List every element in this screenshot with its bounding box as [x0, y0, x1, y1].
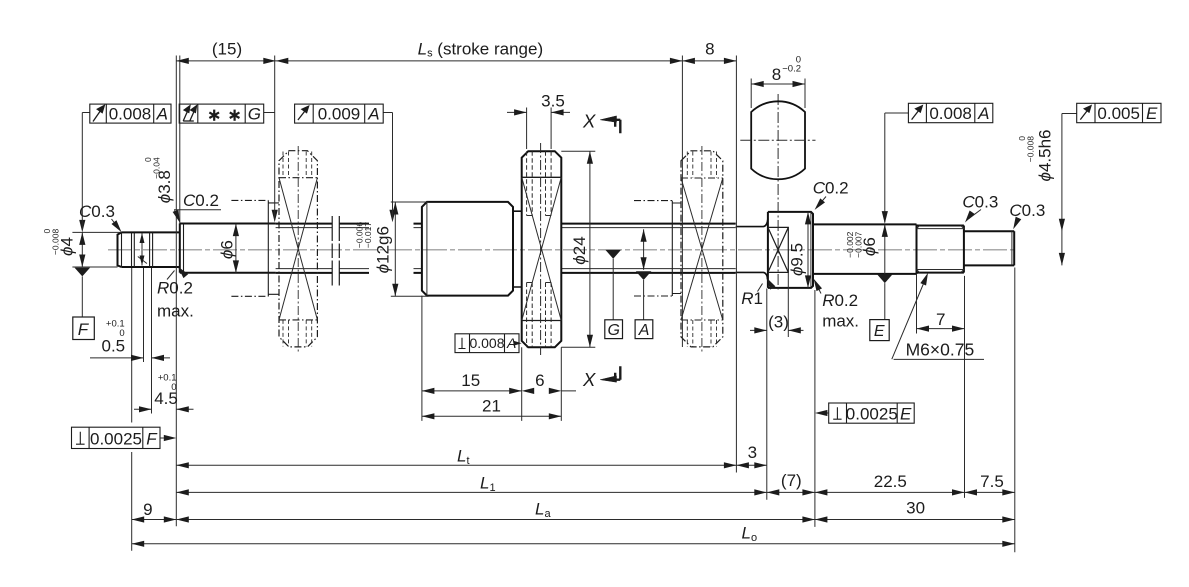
thread end ext (top 8 / Lt / 3)	[735, 56, 737, 473]
svg-text:Ls (stroke range): Ls (stroke range)	[418, 40, 544, 60]
(3)	[754, 327, 767, 333]
phi6 journal	[180, 224, 276, 273]
frame2 double arrow	[183, 120, 194, 122]
svg-text:ϕ4.5h6: ϕ4.5h6	[1035, 129, 1054, 181]
phi4.5	[1059, 219, 1065, 232]
phi4 with tolerance (rotated)	[58, 237, 77, 256]
svg-text:ϕ24: ϕ24	[570, 236, 589, 264]
bottom row4	[132, 543, 1015, 545]
phi6 left	[233, 224, 239, 237]
phi3.8	[140, 233, 145, 243]
frame7 perp 0.0025 F	[72, 427, 161, 448]
svg-text:R1: R1	[741, 289, 763, 308]
datum A triangle + line + box	[636, 271, 652, 280]
svg-text:9: 9	[143, 500, 152, 519]
M6 end ext	[964, 276, 966, 498]
svg-text:F: F	[146, 429, 158, 448]
svg-text:E: E	[1146, 104, 1158, 123]
shoulder face phi4 to phi6	[179, 224, 181, 273]
svg-text:15: 15	[461, 371, 480, 390]
phi6 nut left (rotated)	[217, 240, 236, 259]
svg-text:8: 8	[705, 40, 714, 59]
datum G triangle + line + box	[605, 250, 621, 259]
svg-text:G: G	[608, 322, 620, 339]
svg-text:R0.2: R0.2	[157, 279, 193, 298]
flange cross diagonals	[522, 177, 562, 320]
3.5	[514, 109, 527, 115]
svg-text:ϕ4: ϕ4	[58, 237, 77, 256]
svg-text:C0.2: C0.2	[183, 191, 219, 210]
svg-text:0.0025: 0.0025	[846, 404, 898, 423]
svg-text:E: E	[874, 323, 885, 340]
svg-text:7.5: 7.5	[980, 472, 1004, 491]
phi12 ext	[391, 202, 429, 296]
top row	[176, 58, 189, 64]
21	[422, 413, 435, 419]
7 dim	[917, 328, 965, 330]
15 / 6 / 21 dims	[422, 391, 576, 416]
svg-text:21: 21	[482, 397, 501, 416]
tip right ext	[1014, 268, 1016, 553]
circle 8 dim	[751, 83, 805, 85]
runout arrows in frames	[93, 106, 1091, 122]
phi9.5 dim	[807, 212, 809, 288]
flange divider lines	[522, 177, 562, 320]
7	[917, 326, 930, 332]
4.5 dim	[134, 408, 194, 410]
bottom row2	[176, 491, 1015, 493]
svg-text:3: 3	[748, 443, 757, 462]
svg-text:ϕ9.5: ϕ9.5	[788, 243, 807, 276]
circle 8	[751, 81, 764, 87]
svg-text:7: 7	[936, 310, 945, 329]
svg-text:0.5: 0.5	[102, 337, 126, 356]
datum F triangle + line + box	[75, 268, 91, 277]
frame5 elbow	[1062, 113, 1077, 115]
M6 thread section	[917, 224, 964, 274]
frame3 drop line	[383, 113, 392, 220]
row1	[176, 462, 189, 468]
svg-text:A: A	[367, 104, 379, 123]
right phantom flange	[681, 151, 723, 347]
svg-text:−0.04: −0.04	[151, 157, 161, 179]
phi4.5 tip	[964, 231, 1014, 265]
flange bolt hole hidden lines	[527, 151, 552, 347]
svg-text:C0.3: C0.3	[1009, 201, 1045, 220]
svg-text:30: 30	[906, 499, 925, 518]
groove walls	[122, 224, 184, 273]
nut 15/6/21 ext	[422, 296, 561, 421]
svg-text:0.005: 0.005	[1097, 104, 1140, 123]
frame5 runout 0.005 E	[1077, 103, 1161, 122]
frame3 runout 0.009 A	[295, 104, 384, 123]
section view circle with flats	[751, 101, 805, 179]
7 dim ext	[916, 274, 918, 334]
screw thread crest lines	[276, 224, 736, 273]
svg-text:C0.2: C0.2	[813, 179, 849, 198]
phi24 dim	[589, 151, 591, 347]
phi4 ext	[72, 232, 121, 267]
svg-text:0.008: 0.008	[929, 104, 972, 123]
nut spigot neck	[513, 211, 522, 287]
svg-text:(3): (3)	[768, 313, 789, 332]
4.5	[139, 406, 152, 412]
phi6 right dim + E drop	[884, 113, 886, 274]
svg-text:3.5: 3.5	[541, 92, 565, 111]
phi6 left dim	[235, 224, 237, 273]
3.5 ext	[527, 108, 552, 150]
6	[522, 388, 535, 394]
svg-text:22.5: 22.5	[874, 472, 907, 491]
frame1 runout 0.008 A	[90, 104, 171, 123]
svg-text:A: A	[638, 322, 650, 339]
centerline	[108, 249, 1018, 251]
phi24 ext	[561, 151, 595, 347]
15	[422, 388, 435, 394]
section line through collar	[777, 94, 779, 291]
phi24 (rotated)	[570, 236, 589, 264]
(15)/frame2 drop arrow	[272, 210, 278, 223]
bottom row1 Lt 3	[176, 464, 767, 466]
phi3.8 dim	[138, 233, 147, 266]
frame6 perp 0.008 A at nut flange	[455, 334, 519, 353]
svg-text:−0.008: −0.008	[1026, 136, 1036, 163]
frame3 drop arrow	[389, 210, 395, 223]
svg-text:E: E	[900, 404, 912, 423]
svg-text:0.0025: 0.0025	[90, 429, 142, 448]
shoulder ext up for (15)	[179, 56, 181, 224]
datum A dim	[643, 229, 645, 269]
pipe break tick marks	[332, 216, 339, 286]
frame4 elbow	[885, 112, 909, 114]
phi4.5h6 with tolerance (rotated)	[1035, 129, 1054, 181]
phi4 dim	[81, 232, 83, 267]
datum E triangle + line + box	[877, 274, 893, 283]
phi24	[587, 151, 593, 164]
svg-text:ϕ6: ϕ6	[217, 240, 236, 259]
svg-text:max.: max.	[822, 311, 859, 330]
long left extension (15)/Lt/L1/La	[175, 56, 177, 527]
0.5	[131, 355, 144, 361]
phi12g6	[392, 202, 398, 215]
frame1 drop line	[82, 113, 90, 230]
svg-text:−0.007: −0.007	[853, 231, 863, 258]
groove left wall ext (9/Lo)	[131, 268, 133, 551]
screw thread root lines	[276, 228, 736, 269]
ball nut body	[422, 202, 513, 296]
Ls right / phantom flange face ext	[681, 56, 683, 348]
svg-text:F: F	[78, 320, 90, 339]
flange center section line	[540, 143, 542, 355]
svg-text:R0.2: R0.2	[822, 291, 858, 310]
phi12g6 dim	[394, 202, 396, 296]
frame2 total runout ** G	[179, 104, 264, 123]
svg-text:4.5: 4.5	[154, 389, 178, 408]
row4	[132, 541, 145, 547]
row2	[176, 489, 189, 495]
circle 8 ext	[751, 79, 805, 109]
(3) dim	[750, 329, 804, 331]
chamfer line at phi6 start C0.2	[183, 224, 185, 273]
right phantom nut body	[634, 201, 681, 296]
phi9.5 collar	[768, 212, 813, 288]
svg-text:−0.017: −0.017	[363, 222, 373, 249]
svg-text:A: A	[156, 104, 168, 123]
collar wrench flats box	[768, 227, 788, 272]
phi6 journal right	[813, 224, 917, 274]
phi6 right with tolerance (rotated)	[860, 237, 879, 256]
phi12g6 with tolerance (rotated)	[373, 226, 392, 273]
frame2 asterisks	[209, 110, 239, 121]
svg-text:−0.008: −0.008	[50, 229, 60, 256]
svg-text:G: G	[248, 104, 261, 123]
collar left face ext	[766, 289, 768, 500]
frame4 drop / phi6 right	[882, 211, 888, 224]
svg-text:0.008: 0.008	[469, 335, 504, 351]
arrowheads	[79, 58, 1065, 547]
left phantom nut body	[231, 200, 279, 296]
row3	[132, 516, 145, 522]
top row (15) Ls 8	[176, 60, 736, 62]
svg-text:A: A	[977, 104, 989, 123]
shaft left tip face	[118, 232, 122, 267]
svg-text:M6×0.75: M6×0.75	[906, 340, 975, 360]
thread end neck (3mm)	[736, 219, 768, 281]
flats ext for (3)	[787, 273, 789, 338]
phi4.5 dim + frame5 drop	[1061, 114, 1063, 266]
datum A dim	[641, 229, 647, 242]
frame4 runout 0.008 A	[908, 103, 992, 122]
3.5 dim	[507, 111, 570, 113]
svg-text:6: 6	[535, 371, 544, 390]
svg-text:(15): (15)	[212, 40, 242, 59]
svg-text:(7): (7)	[781, 471, 802, 490]
collar right face ext	[814, 290, 816, 527]
left phantom flange	[279, 151, 317, 347]
svg-text:X: X	[582, 110, 596, 131]
svg-text:0.009: 0.009	[318, 104, 361, 123]
bottom row3	[132, 519, 1015, 521]
0.5 dim	[90, 357, 170, 359]
svg-text:0.008: 0.008	[109, 104, 152, 123]
phi3.8 with tolerance (rotated)	[155, 170, 174, 203]
svg-text:8: 8	[772, 65, 781, 84]
frame8 perp 0.0025 E	[829, 403, 915, 423]
nut flange outline	[522, 151, 562, 347]
svg-text:C0.3: C0.3	[79, 202, 115, 221]
svg-text:C0.3: C0.3	[962, 193, 998, 212]
svg-text:X: X	[582, 369, 596, 390]
svg-text:−0.2: −0.2	[782, 64, 801, 75]
svg-text:ϕ12g6: ϕ12g6	[373, 226, 392, 273]
phi4 journal	[122, 232, 180, 267]
0.5 ext lines	[144, 268, 152, 414]
frame2 drop line	[264, 56, 275, 220]
phi4	[79, 232, 85, 245]
svg-text:max.: max.	[157, 302, 194, 321]
